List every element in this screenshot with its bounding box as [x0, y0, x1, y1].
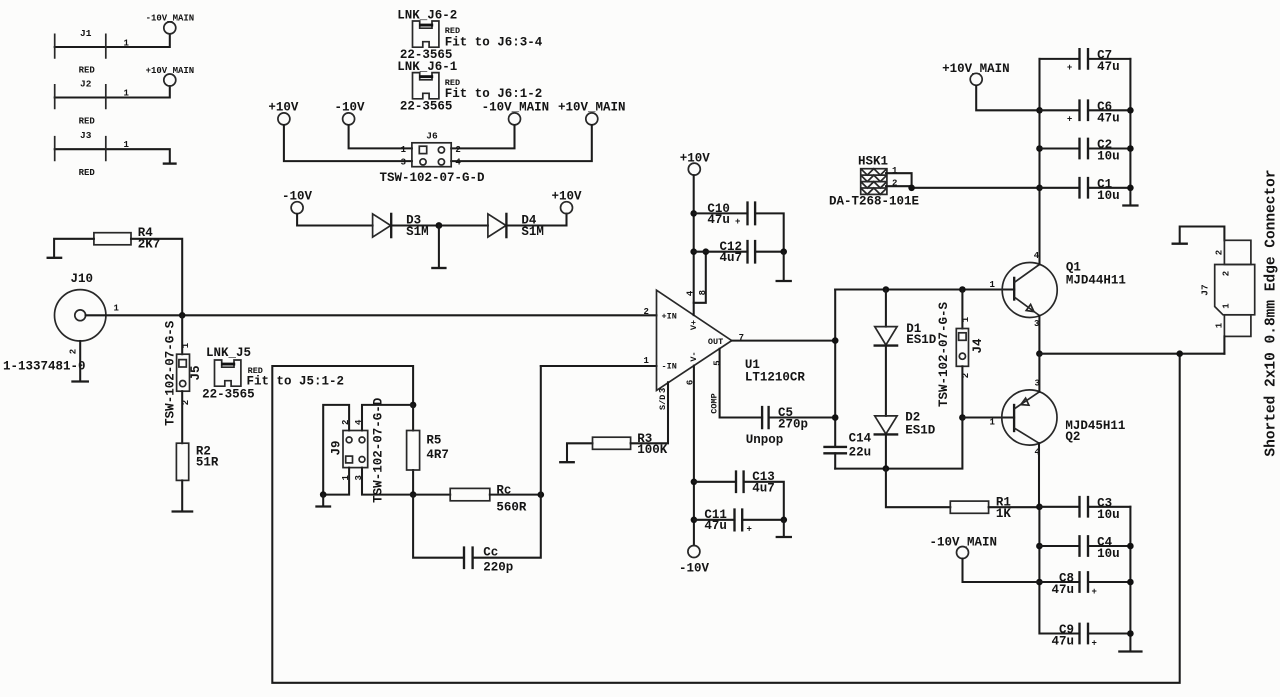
wire D1 cathode to D2 anode [885, 346, 887, 416]
svg-text:Shorted 2x10 0.8mm Edge Connec: Shorted 2x10 0.8mm Edge Connector [1264, 169, 1280, 456]
wire Q2 collector to -10V rail [1038, 443, 1040, 507]
wire J7 pin2 to ground [1180, 227, 1225, 243]
svg-text:5: 5 [712, 360, 722, 365]
svg-text:47u: 47u [707, 213, 730, 227]
node C4 right junction [1127, 543, 1134, 550]
svg-text:TSW-102-07-G-D: TSW-102-07-G-D [372, 397, 386, 503]
wire Rc right to -IN node [490, 494, 541, 496]
svg-text:LNK_J5: LNK_J5 [206, 346, 251, 360]
wire -IN to op-amp [541, 365, 657, 367]
capacitor C2 10u [1040, 138, 1131, 164]
diode D4 S1M [488, 213, 544, 239]
power symbol +10V_MAIN (rail) [942, 62, 1010, 86]
svg-text:RED: RED [79, 116, 96, 126]
edge connector J7 [1173, 169, 1280, 456]
wire +10V_MAIN to rail [976, 86, 1039, 111]
svg-text:U1: U1 [745, 358, 760, 372]
node Rc right junction [538, 491, 545, 498]
svg-text:C14: C14 [849, 431, 872, 445]
wire diode midpoint to ground [438, 226, 440, 268]
svg-text:270p: 270p [778, 417, 808, 431]
ground (C7-C1 group) [1123, 204, 1137, 206]
svg-text:1-1337481-0: 1-1337481-0 [3, 360, 86, 374]
resistor R3 100K [593, 432, 668, 457]
svg-text:10u: 10u [1097, 189, 1120, 203]
svg-text:V-: V- [689, 351, 699, 361]
wire feedback loop (output node to R5 top) [272, 354, 1179, 683]
svg-text:47u: 47u [1097, 60, 1120, 74]
wire J5 pin2 to R2 [181, 391, 183, 443]
svg-text:1: 1 [1222, 303, 1232, 309]
J7 pad 2 [1224, 240, 1251, 264]
wire D2 cathode to R1 [886, 469, 950, 508]
svg-text:Q2: Q2 [1065, 430, 1080, 444]
svg-text:Fit to J5:1-2: Fit to J5:1-2 [247, 374, 345, 388]
svg-text:47u: 47u [1097, 111, 1120, 125]
heatsink HSK1 DA-T268-101E [829, 155, 919, 209]
wire R1 right to -10V rail [989, 506, 1040, 508]
jumper link LNK_J6-2 [397, 8, 543, 62]
wire J4 pin2 lead [961, 366, 963, 417]
J10 pin2 end bar [73, 380, 88, 382]
svg-text:10u: 10u [1097, 508, 1120, 522]
svg-text:Unpop: Unpop [746, 433, 784, 447]
svg-text:J10: J10 [71, 272, 94, 286]
connector J9 TSW-102-07-G-D [330, 397, 386, 503]
svg-text:4u7: 4u7 [720, 251, 743, 265]
ground (C11 C13) [777, 536, 791, 538]
connector J4 TSW-102-07-G-S [937, 301, 985, 407]
capacitor C11 47u [694, 508, 784, 534]
J3 tick marks [55, 136, 106, 161]
wire -10V_MAIN to rail [963, 559, 1040, 582]
wire Q1 emitter to output node [1038, 316, 1040, 354]
svg-text:+: + [1092, 639, 1097, 649]
wire J9 pin3 to R5 bottom [362, 468, 413, 495]
resistor R4 [94, 226, 160, 251]
svg-text:1: 1 [1215, 322, 1225, 328]
wire HSK1 pin1 jog [886, 173, 912, 188]
svg-text:Fit to J6:3-4: Fit to J6:3-4 [445, 35, 543, 49]
svg-text:S1M: S1M [406, 225, 429, 239]
svg-text:47u: 47u [704, 519, 727, 533]
node J7 pin1 junction [1176, 350, 1183, 357]
node C6 left junction [1036, 107, 1043, 114]
svg-text:1: 1 [124, 38, 130, 48]
svg-text:10u: 10u [1097, 150, 1120, 164]
op-amp U1 LT1210CR [644, 290, 806, 414]
svg-text:-10V: -10V [679, 562, 710, 576]
capacitor C14 22u [825, 431, 872, 459]
svg-text:1: 1 [644, 356, 650, 366]
svg-text:1K: 1K [996, 507, 1012, 521]
svg-text:2: 2 [455, 145, 460, 155]
power symbol +10V (D4) [552, 189, 583, 213]
resistor R5 [407, 405, 449, 495]
wire -10V to D3 anode [297, 214, 373, 226]
wire node A top to Q1 base [835, 288, 1014, 290]
capacitor C13 4u7 [694, 470, 784, 520]
wire J7 pin1 to output node [1223, 336, 1225, 353]
svg-text:LNK_J6-2: LNK_J6-2 [397, 8, 457, 22]
wire +10V rail vertical [1038, 59, 1040, 265]
node C10 left junction [690, 210, 697, 217]
svg-text:TSW-102-07-G-D: TSW-102-07-G-D [380, 171, 486, 185]
svg-text:MJD44H11: MJD44H11 [1066, 274, 1126, 288]
capacitor C9 47u [1052, 623, 1131, 649]
wire D1 anode lead [885, 290, 887, 327]
wire +10V to U1 pin4 [693, 175, 695, 315]
ground (J9) [317, 505, 331, 507]
svg-text:1: 1 [114, 304, 120, 314]
power symbol +10V_MAIN (J6 pin4) [558, 100, 626, 125]
wire input net J10 to op-amp +IN [86, 314, 657, 316]
capacitor C12 4u7 [694, 240, 784, 265]
wire Cc branch left [413, 495, 464, 558]
svg-text:4: 4 [455, 158, 461, 168]
capacitor C4 10u [1039, 536, 1130, 562]
wire D2 cathode to bottom rail [885, 434, 887, 468]
svg-text:2: 2 [68, 349, 78, 354]
wire J9 ground stub [322, 495, 324, 506]
wire R3 left to ground [567, 443, 593, 461]
wire -10V_MAIN to J6 pin2 [451, 125, 514, 148]
svg-text:2: 2 [1215, 250, 1225, 255]
wire J4 pin1 lead [961, 290, 963, 329]
diode D3 S1M [373, 213, 429, 239]
ground (R2) [173, 510, 192, 512]
power symbol -10V (D3) [282, 189, 313, 213]
svg-text:J4: J4 [971, 338, 985, 354]
wire R4 right to input node [131, 239, 182, 315]
node C12 right junction [780, 248, 787, 255]
resistor Rc [450, 484, 527, 515]
svg-text:22-3565: 22-3565 [202, 388, 255, 402]
power symbol -10V (J6 pin1) [335, 100, 366, 125]
ground (J7 pin2) [1173, 243, 1187, 245]
svg-text:+: + [1092, 587, 1097, 597]
svg-text:22u: 22u [849, 445, 872, 459]
svg-text:1: 1 [990, 417, 996, 427]
wire node A vertical (OUT to C14) [834, 290, 836, 469]
wire C10/C12 right to ground [783, 252, 785, 280]
svg-text:HSK1: HSK1 [858, 155, 888, 169]
node A OUT junction [832, 337, 839, 344]
svg-text:4R7: 4R7 [426, 448, 449, 462]
ground (C3-C9 group) [1119, 650, 1141, 652]
wire C11 right to ground [783, 520, 785, 536]
svg-text:1: 1 [961, 316, 971, 322]
ground (R4) [48, 257, 61, 259]
node J4 pin1 junction [959, 286, 966, 293]
svg-text:+IN: +IN [662, 312, 677, 322]
jumper link LNK_J6-1 [397, 60, 542, 113]
wire U1 pin8 branch [694, 252, 706, 303]
svg-text:1: 1 [181, 342, 191, 348]
node diode midpoint junction [436, 222, 443, 229]
svg-text:J7: J7 [1200, 284, 1211, 296]
wire C3-C9 right bus to ground [1129, 507, 1131, 651]
node C9 right junction [1127, 630, 1134, 637]
node C4 left junction [1036, 543, 1043, 550]
svg-text:-IN: -IN [662, 361, 677, 371]
power symbol -10V (U1 supply) [679, 546, 710, 576]
svg-text:J3: J3 [80, 130, 92, 141]
power symbol +10V (U1 supply) [680, 152, 711, 176]
svg-text:+10V: +10V [552, 189, 583, 203]
svg-text:100K: 100K [637, 443, 668, 457]
svg-text:51R: 51R [196, 456, 219, 470]
svg-text:Q1: Q1 [1066, 260, 1081, 274]
svg-text:S1M: S1M [521, 225, 544, 239]
svg-text:R5: R5 [426, 433, 441, 447]
node C2 right junction [1127, 145, 1134, 152]
J7 body [1215, 265, 1255, 315]
wire J9 pin2 to ground rail [323, 405, 349, 495]
J1 tick marks [55, 34, 106, 59]
svg-text:RED: RED [79, 168, 96, 178]
svg-text:1: 1 [990, 280, 996, 290]
svg-text:+: + [735, 217, 740, 227]
node D2 cathode junction [883, 465, 890, 472]
resistor R1 1K [950, 495, 1011, 521]
svg-text:220p: 220p [483, 561, 513, 575]
power symbol -10V_MAIN (J6 pin2) [482, 100, 550, 125]
wire node B to Q2 base [962, 416, 1014, 418]
transistor Q1 MJD44H11 [1002, 251, 1126, 329]
svg-text:3: 3 [658, 388, 668, 393]
svg-text:J2: J2 [80, 79, 92, 90]
svg-text:J9: J9 [330, 440, 344, 455]
wire -IN vertical [540, 366, 542, 495]
svg-text:TSW-102-07-G-S: TSW-102-07-G-S [937, 301, 951, 407]
wire output node to J7 [1039, 353, 1224, 355]
svg-text:D2: D2 [905, 410, 920, 424]
svg-text:COMP: COMP [710, 393, 720, 413]
capacitor Cc [464, 545, 513, 574]
wire +10V to J6 pin3 [284, 125, 412, 161]
node B J4 pin2 junction [959, 414, 966, 421]
wire U1 OUT to node A [732, 340, 836, 342]
node C6 right junction [1127, 107, 1134, 114]
node HSK1 junction [908, 185, 915, 192]
wire U1 pin6 to -10V [693, 366, 695, 546]
svg-text:+: + [1067, 63, 1072, 73]
BNC connector J10 [3, 272, 120, 374]
jumper link LNK_J5 [202, 346, 344, 402]
svg-text:+10V_MAIN: +10V_MAIN [146, 66, 195, 76]
node C13 left junction [691, 479, 698, 486]
svg-text:47u: 47u [1052, 635, 1075, 649]
ground (R3) [560, 461, 573, 463]
node C2 left junction [1036, 145, 1043, 152]
svg-text:RED: RED [79, 65, 96, 75]
ground (D3 D4 midpoint) [432, 267, 445, 269]
capacitor C10 47u [694, 202, 784, 252]
svg-text:1: 1 [124, 140, 130, 150]
svg-text:S/D: S/D [658, 395, 668, 410]
diode D2 ES1D [875, 410, 936, 437]
transistor Q2 MJD45H11 [1002, 378, 1126, 457]
capacitor C3 10u [1039, 496, 1130, 522]
svg-text:4u7: 4u7 [752, 481, 775, 495]
node output junction [1036, 350, 1043, 357]
svg-text:LNK_J6-1: LNK_J6-1 [397, 60, 457, 74]
node C11 right junction [781, 517, 788, 524]
wire R5 bottom to Rc [413, 494, 450, 496]
wire J9 pin4 to R5 top [362, 405, 413, 431]
svg-text:J5: J5 [189, 365, 203, 380]
node C12 left junction pin4 [690, 248, 697, 255]
wire D4 cathode to +10V [506, 214, 566, 226]
node C1 right junction [1127, 185, 1134, 192]
wire Q2 emitter to output node [1038, 354, 1040, 392]
connector J2 [55, 79, 170, 127]
J2 tick marks [55, 84, 106, 109]
power symbol -10V_MAIN (J1) [146, 14, 195, 34]
wire J2 pin1 to +10V_MAIN [55, 86, 170, 97]
connector J6 TSW-102-07-G-D [380, 130, 486, 185]
node input junction [179, 312, 186, 319]
J7 pad 1 [1224, 315, 1251, 337]
svg-text:3: 3 [401, 158, 406, 168]
power symbol +10V (J6 pin3) [268, 100, 299, 125]
svg-text:ES1D: ES1D [905, 423, 936, 437]
svg-text:J6: J6 [426, 130, 438, 141]
node C11 left junction [691, 517, 698, 524]
wire J1 pin1 to -10V_MAIN [55, 34, 170, 47]
svg-text:ES1D: ES1D [906, 333, 937, 347]
node R1 C3 junction [1036, 504, 1043, 511]
node J9 ground junction [320, 491, 327, 498]
svg-text:+: + [1067, 114, 1072, 124]
wire J9 pin1 to ground rail [323, 468, 349, 495]
node C8 left junction [1036, 579, 1043, 586]
capacitor C8 47u [1039, 572, 1130, 598]
svg-text:Fit to J6:1-2: Fit to J6:1-2 [445, 87, 543, 101]
svg-text:TSW-102-07-G-S: TSW-102-07-G-S [164, 320, 178, 426]
node C1 left junction [1036, 185, 1043, 192]
svg-text:DA-T268-101E: DA-T268-101E [829, 194, 919, 208]
ground (C10 C12) [777, 280, 791, 282]
svg-text:LT1210CR: LT1210CR [745, 371, 806, 385]
wire Cc right to -IN vertical [473, 495, 541, 558]
wire D3 cathode to D4 anode [391, 224, 488, 226]
capacitor C5 270p [746, 406, 836, 447]
svg-text:1: 1 [892, 166, 898, 176]
svg-text:1: 1 [401, 145, 407, 155]
svg-text:22-3565: 22-3565 [400, 99, 453, 113]
wire +10V_MAIN to J6 pin4 [451, 125, 592, 161]
svg-text:+: + [747, 525, 752, 535]
capacitor C1 10u [1040, 177, 1131, 203]
node R5 bottom junction [410, 491, 417, 498]
wire node B bottom rail [835, 418, 962, 469]
wire -10V to J6 pin1 [349, 125, 412, 148]
svg-text:10u: 10u [1097, 547, 1120, 561]
power symbol +10V_MAIN (J2) [146, 66, 195, 86]
capacitor C7 47u [1040, 48, 1131, 74]
node R5 top junction [410, 402, 417, 409]
svg-text:1: 1 [124, 88, 130, 98]
svg-text:2: 2 [1222, 271, 1232, 276]
svg-text:V+: V+ [689, 320, 699, 330]
svg-text:560R: 560R [496, 501, 527, 515]
connector J3 [55, 130, 170, 178]
diode D1 ES1D [875, 322, 937, 347]
svg-text:J1: J1 [80, 28, 92, 39]
wire -10V rail vertical [1039, 507, 1079, 634]
node C8 right junction [1127, 579, 1134, 586]
node D1 anode junction [883, 286, 890, 293]
svg-text:-10V_MAIN: -10V_MAIN [146, 14, 195, 24]
node A C5 junction [832, 414, 839, 421]
wire R3 right to U1 S/D pin3 [631, 382, 668, 443]
ground (J3) [164, 162, 176, 164]
wire U1 COMP pin5 to C5 [720, 349, 763, 418]
power symbol -10V_MAIN (rail) [930, 535, 998, 558]
capacitor C6 47u [1040, 100, 1131, 126]
svg-text:2: 2 [644, 307, 649, 317]
connector J1 [55, 28, 170, 76]
connector J5 TSW-102-07-G-S [164, 315, 204, 426]
wire C7-C1 right bus to ground [1129, 59, 1131, 205]
wire J10 pin2 stub [79, 341, 81, 381]
wire R2 to ground [181, 480, 183, 510]
svg-text:OUT: OUT [708, 337, 723, 347]
wire R4 left to ground [54, 239, 94, 257]
wire J3 pin1 to ground [55, 149, 170, 162]
wire HSK1 pin2 to +10V rail [886, 186, 1040, 188]
resistor R2 [176, 443, 219, 480]
node C12 left junction pin8 [703, 248, 710, 255]
svg-text:47u: 47u [1052, 583, 1075, 597]
